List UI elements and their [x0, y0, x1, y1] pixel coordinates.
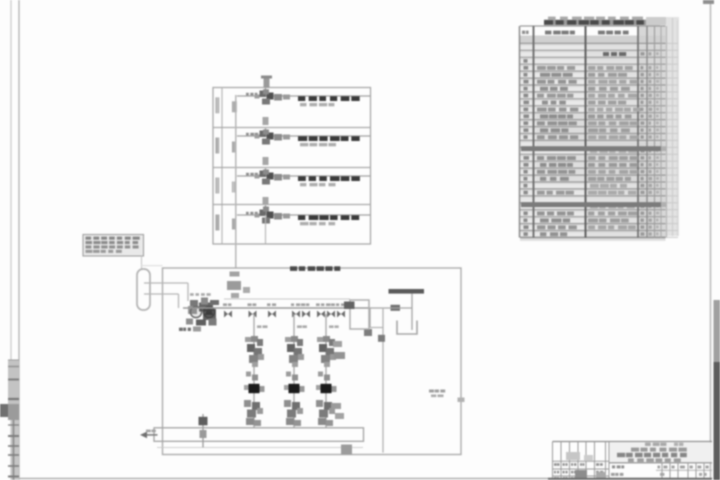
title block name area wash [610, 442, 711, 462]
frame outer left line [10, 0, 12, 480]
table row content text blobs [603, 52, 609, 56]
title block left grid horizontals [553, 460, 610, 462]
plant schematic outer box [163, 268, 462, 455]
riser row 4 left column vertical label [215, 215, 218, 231]
left stamp tick 3 [8, 398, 19, 400]
left stamp tick 1 [8, 366, 19, 368]
branch 1 strainer/meter cluster [245, 337, 251, 342]
frame right line [710, 0, 712, 480]
riser row 2 diameter label [232, 142, 234, 153]
riser row 3 left column vertical label [215, 178, 218, 194]
title block doc number top text [645, 443, 651, 446]
scan dark edge bottom right [714, 362, 720, 480]
branch riser 1 vertical pipe [253, 314, 255, 428]
callout leader line [141, 256, 143, 269]
title block top line [553, 441, 713, 443]
air collector stem [411, 294, 413, 330]
scan mark top right corner [703, 0, 714, 4]
air collector [389, 289, 425, 294]
riser row 2 bold designation text [298, 136, 307, 141]
heat exchanger box [350, 300, 369, 329]
riser schedule block outline [213, 88, 371, 245]
left stamp inner vertical [13, 420, 15, 480]
title block left cells text marks [554, 463, 557, 466]
upper suction line [224, 298, 350, 300]
riser row 3 diameter label [232, 182, 233, 193]
riser row 3 light subtitle text [300, 183, 306, 186]
table ghost vertical 2 [672, 18, 674, 236]
left stamp lower tick [8, 465, 19, 467]
riser row 2 left column vertical label [215, 138, 218, 154]
drop pipe elbow marks [230, 272, 240, 277]
right riser pipe [382, 308, 384, 453]
main drop pipe from riser block to plant schematic [235, 95, 237, 268]
riser row 4 diameter label [232, 219, 234, 230]
left stamp lower tick [8, 445, 19, 447]
table top line [520, 25, 666, 27]
scan edge fade [714, 300, 720, 362]
table vertical column lines [519, 26, 521, 238]
left stamp lower tick [8, 454, 19, 456]
riser row 3 riser continuation stub [263, 197, 269, 205]
riser row 4 pipe line [237, 214, 371, 216]
riser row 3 valve/meter symbol cluster [265, 169, 267, 177]
branch riser 3 vertical pipe [325, 314, 327, 428]
tank outlet drop [187, 283, 189, 301]
collector drain stub [341, 445, 352, 455]
callout text line 4 [86, 250, 93, 253]
callout note box [83, 235, 144, 257]
header col3 caption [598, 31, 605, 35]
branch 2 lower valve cluster [284, 400, 291, 407]
specification table title text [544, 20, 660, 26]
main manifold line [183, 307, 370, 309]
riser row 1 riser continuation stub [263, 117, 269, 125]
branch under-valve labels [257, 325, 261, 328]
table right cols wash [638, 26, 667, 238]
note label near right riser [429, 390, 434, 393]
riser block row divider 3 [213, 204, 371, 206]
title block right small cells [661, 463, 663, 479]
table col2 dense zone wash [536, 112, 584, 146]
tank outlet drop 2 [178, 294, 180, 308]
pump group cluster [190, 306, 201, 317]
pipe to air collector valve [370, 307, 412, 309]
collector lower faint line [157, 446, 363, 448]
table bottom line [520, 237, 666, 239]
riser block row divider 1 [213, 127, 371, 129]
tank outlet pipe upper [144, 282, 188, 284]
left stamp lower tick [8, 476, 19, 478]
branch 3 side marks [333, 341, 342, 347]
branch 3 circulation pump (dark) [318, 372, 323, 377]
tank outlet pipe lower [144, 293, 179, 295]
table horizontal row lines [520, 42, 666, 44]
table ghost right band [666, 17, 679, 236]
riser row 2 valve/meter symbol cluster [265, 129, 267, 137]
riser row 3 pipe tag label [246, 173, 249, 176]
riser row 1 valve/meter symbol cluster [265, 88, 267, 96]
branch 3 lower valve cluster [316, 400, 323, 407]
expansion tank [137, 269, 150, 310]
riser row 2 pipe tag label [246, 133, 249, 136]
callout text line 1 [86, 237, 92, 240]
riser row 1 pipe tag label [246, 93, 249, 96]
schematic title text [290, 266, 297, 271]
table ghost vertical 3 [677, 20, 679, 236]
faint link line to schematic [141, 265, 163, 267]
riser row 2 pipe line [237, 135, 371, 137]
left stamp mid block [8, 404, 19, 420]
branch riser 2 vertical pipe [293, 314, 295, 428]
table col3 dense zone wash [586, 112, 643, 183]
riser row 3 bold designation text [298, 176, 306, 181]
header col1 caption [522, 31, 525, 34]
riser row 1 diameter label [232, 101, 233, 112]
riser block row divider 2 [213, 167, 371, 169]
frame inner left line [18, 0, 20, 480]
left stamp lower tick [8, 424, 19, 426]
riser row 1 pipe line [237, 95, 371, 97]
riser block inner left column line [221, 88, 223, 245]
frame bottom line [15, 478, 712, 480]
branch 2 circulation pump (dark) [286, 372, 291, 377]
riser row 4 bold designation text [298, 215, 305, 220]
riser row 4 pipe tag label [246, 212, 249, 215]
riser row 1 left column vertical label [215, 97, 218, 113]
table col3 wash [585, 44, 644, 238]
left stamp lower strip [11, 420, 19, 480]
header col2 caption [545, 31, 551, 35]
riser row 2 light subtitle text [300, 143, 308, 146]
air collector drain box [397, 321, 417, 335]
table header row [520, 36, 666, 44]
branch 2 strainer/meter cluster [285, 337, 291, 342]
bottom collector manifold [154, 428, 364, 442]
callout text line 3 [86, 245, 92, 248]
left stamp tick 2 [8, 379, 19, 381]
table section header bar 2 [521, 202, 661, 207]
collector inlet valve [202, 414, 204, 447]
title block lower left mark [611, 473, 615, 476]
riser row 3 pipe line [237, 175, 371, 177]
branch 1 lower valve cluster [244, 400, 251, 407]
title block lower-left caption [612, 465, 615, 468]
manifold valve cluster symbols [224, 311, 232, 318]
vent symbol above riser block [264, 77, 270, 88]
table ghost right edge [668, 17, 670, 235]
left stamp upper strip [8, 360, 19, 420]
table bottom shadow line [520, 239, 666, 241]
riser stub below row 4 [265, 215, 267, 244]
branch 1 circulation pump (dark) [246, 372, 251, 377]
riser row 4 valve/meter symbol cluster [265, 206, 267, 216]
table col2 dense zone wash 2 [536, 155, 584, 183]
branch 3 strainer/meter cluster [317, 337, 323, 342]
title block left cells gray blobs [566, 452, 580, 460]
riser row 1 bold designation text [298, 96, 305, 101]
table body light wash [520, 44, 666, 238]
title block left grid verticals [552, 442, 554, 479]
callout text line 2 [86, 241, 93, 244]
title block name text lines [631, 448, 639, 452]
left stamp lower tick [8, 435, 19, 437]
pump group label [179, 328, 183, 331]
title block bottom dark line [548, 478, 712, 480]
left stamp dark blob at sheet edge [0, 404, 9, 417]
title block mid divider [609, 462, 712, 464]
title block lower right mark 1 [660, 473, 664, 476]
cross connect pipe [370, 327, 383, 329]
riser row 1 light subtitle text [300, 103, 307, 106]
outlet arrow pointing left [143, 434, 158, 436]
table section header bar 1 [521, 146, 661, 151]
arrow label [146, 430, 151, 433]
riser row 2 riser continuation stub [263, 157, 269, 165]
table ghost shadow top-right [646, 17, 666, 25]
manifold turn down [369, 308, 371, 328]
riser row 4 light subtitle text [300, 222, 309, 225]
title block lower right mark 2 [699, 473, 702, 476]
